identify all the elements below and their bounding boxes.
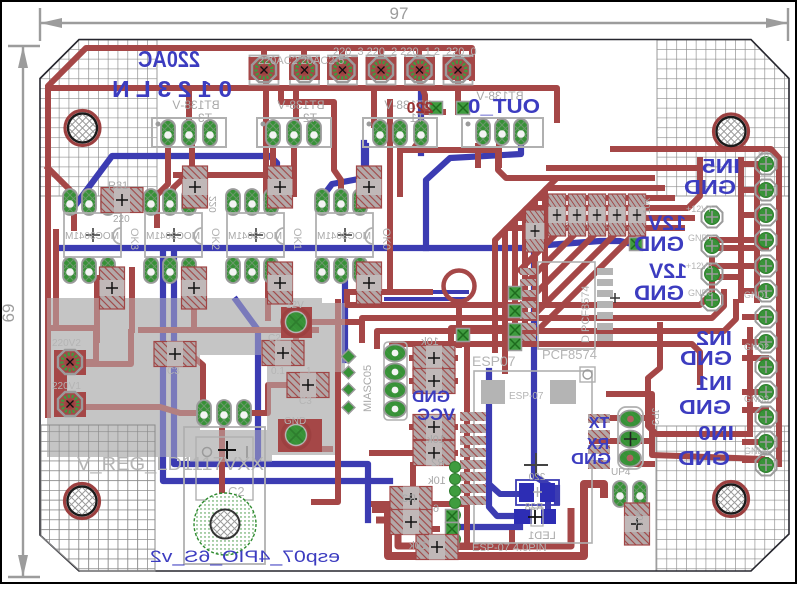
wire top bundleA6 bbox=[495, 228, 682, 350]
svg-text:220V2: 220V2 bbox=[52, 338, 81, 349]
terminal 220_0 bbox=[446, 58, 470, 82]
wire top t7 bbox=[497, 120, 503, 142]
header JP4 bbox=[611, 467, 647, 507]
wire top bank fan 4 bbox=[532, 234, 615, 317]
svg-text:0.1: 0.1 bbox=[271, 366, 285, 377]
wire bottom b2 bbox=[326, 143, 364, 203]
svg-text:12V: 12V bbox=[286, 300, 304, 311]
wire top bank fan 2 bbox=[524, 234, 575, 285]
svg-text:GND4: GND4 bbox=[744, 446, 769, 456]
wire bottom led link bbox=[489, 484, 523, 494]
optocoupler OK2 MOC3041M bbox=[144, 189, 202, 283]
svg-text:UP4: UP4 bbox=[611, 467, 631, 478]
wire bottom b9 bbox=[236, 300, 258, 464]
resistor R00 bbox=[357, 262, 382, 304]
IC PCF8574 bbox=[520, 262, 620, 362]
hatch region bottom-left overlay bbox=[41, 425, 155, 571]
wire top m2 bbox=[291, 146, 297, 194]
wire top bank fan 5 bbox=[536, 234, 634, 332]
resistor bank RN1 bbox=[548, 194, 566, 236]
terminal 220V2 red pour bbox=[54, 350, 86, 375]
wire top m3 bbox=[397, 146, 403, 194]
voltage regulator V_REG_LD1117VXX bbox=[184, 400, 265, 564]
wire top pad link2 bbox=[712, 245, 766, 251]
wire top right rail inner bbox=[738, 160, 744, 300]
wire bottom b6 bbox=[163, 252, 390, 481]
wire top bundle feed bbox=[402, 150, 557, 178]
resistor R10 bbox=[526, 210, 545, 252]
wire top right zig7 bbox=[745, 339, 766, 345]
wire top gnd rail right bbox=[314, 302, 338, 502]
svg-text:10k: 10k bbox=[409, 540, 427, 552]
resistor R6 bbox=[413, 441, 455, 466]
LED LED1 bbox=[514, 502, 556, 542]
svg-text:GND: GND bbox=[634, 282, 684, 305]
silkscreen pour base bbox=[47, 298, 345, 462]
dimension 69 extension line bottom bbox=[8, 576, 40, 578]
terminal pad red pour 5 bbox=[404, 57, 435, 80]
resistor R01 bbox=[357, 166, 382, 208]
wire top rail2 drop T2 bbox=[293, 92, 299, 125]
svg-text:IN0: IN0 bbox=[698, 423, 734, 445]
wire top m5 bbox=[94, 278, 100, 340]
wire top rail2 drop T3 bbox=[186, 92, 192, 125]
dimension 69 arrow bottom bbox=[18, 555, 28, 577]
wire top left col feeds bbox=[309, 319, 357, 325]
terminal 220AC1 bbox=[293, 58, 317, 82]
hole top-left bbox=[65, 111, 100, 146]
svg-text:OK2: OK2 bbox=[209, 228, 221, 250]
svg-text:IN5: IN5 bbox=[702, 156, 740, 178]
dimension 97 line bbox=[40, 22, 788, 24]
wire bottom b5 branch bbox=[534, 241, 632, 246]
wire top triac0 down bbox=[475, 146, 481, 165]
terminal pad red pour 2 bbox=[289, 57, 320, 80]
wire top right zig2 bbox=[741, 212, 766, 218]
wire top right zig5 bbox=[741, 288, 766, 294]
wire top esp bottom v bbox=[413, 465, 437, 529]
wire top pad link6 bbox=[745, 457, 766, 463]
wire bottom b1 bbox=[77, 156, 277, 203]
wire top right bottom L inner bbox=[609, 394, 762, 459]
wire top esp horizontal bbox=[374, 501, 467, 507]
wire top t5 bbox=[419, 80, 443, 112]
resistor R3 bbox=[390, 487, 432, 512]
wire top m1c bbox=[157, 146, 168, 225]
wire top jp3 stub1 bbox=[622, 415, 652, 421]
via ring center bbox=[444, 271, 475, 302]
wire top 220V2 to rail bbox=[82, 332, 131, 364]
dimension 69 arrow top bbox=[18, 46, 28, 68]
dimension 97 arrow right bbox=[766, 18, 788, 28]
svg-text:10k: 10k bbox=[421, 336, 439, 348]
wire top vreg c3 bbox=[244, 385, 292, 413]
svg-text:220: 220 bbox=[208, 196, 219, 213]
svg-text:GND: GND bbox=[678, 448, 730, 470]
svg-text:12V: 12V bbox=[648, 212, 686, 235]
wire top vreg c1 bbox=[190, 354, 203, 399]
svg-text:220: 220 bbox=[407, 100, 434, 117]
wire top bundleA7 bbox=[549, 165, 694, 171]
wire top pad link5 bbox=[745, 407, 766, 413]
wire top bundleB2 bbox=[362, 292, 724, 340]
resistor R10b bbox=[268, 262, 293, 304]
wire top bottom U loop inner bbox=[376, 508, 571, 546]
svg-text:VCC: VCC bbox=[417, 405, 455, 424]
wire top t2 bbox=[281, 92, 341, 198]
wire top rx stub bbox=[592, 438, 622, 444]
svg-text:C3: C3 bbox=[299, 396, 312, 407]
svg-text:10k: 10k bbox=[428, 475, 446, 487]
svg-text:GND: GND bbox=[679, 397, 731, 419]
hole bottom-right bbox=[714, 482, 749, 517]
svg-text:GND8: GND8 bbox=[688, 288, 713, 298]
wire top left rail second bbox=[53, 232, 59, 328]
svg-text:GND3: GND3 bbox=[744, 394, 769, 404]
terminal 220_2 bbox=[369, 58, 393, 82]
resistor bank RN5 bbox=[628, 194, 646, 236]
wire top 220V2 branch bbox=[48, 328, 96, 362]
svg-text:OK1: OK1 bbox=[291, 228, 303, 250]
wire top bottom U loop outer bbox=[372, 484, 604, 556]
svg-text:OK0: OK0 bbox=[380, 228, 392, 250]
pad GND ring bbox=[282, 421, 310, 449]
resistor R2 bbox=[413, 415, 455, 440]
wire bottom b4 bbox=[418, 88, 424, 153]
wire top stub pad1 bbox=[261, 48, 267, 60]
svg-text:T2: T2 bbox=[303, 111, 317, 125]
wire top t4 bbox=[387, 102, 393, 290]
wire bottom b7 bbox=[174, 252, 368, 520]
capacitor C2 electrolytic outline bbox=[194, 493, 256, 555]
svg-text:R31: R31 bbox=[108, 180, 128, 192]
hatch region top-right bbox=[657, 40, 789, 196]
terminal pad red pour 4 bbox=[366, 57, 397, 80]
wire top right zig1 bbox=[741, 187, 766, 193]
resistor R21 bbox=[183, 166, 208, 208]
terminal 220V1 bbox=[58, 392, 82, 416]
svg-text:ESP07: ESP07 bbox=[472, 353, 516, 369]
wire bottom circle pair a bbox=[386, 290, 467, 294]
hole bottom-left bbox=[65, 484, 100, 519]
module center mark bbox=[524, 453, 548, 477]
wire bottom led vert bbox=[545, 497, 551, 513]
wire top jp3 stub2 bbox=[622, 438, 652, 444]
wire top stub pad2 bbox=[301, 48, 307, 60]
svg-text:esp07_4PIO_6S_v2: esp07_4PIO_6S_v2 bbox=[150, 547, 340, 566]
svg-text:D PCF8574: D PCF8574 bbox=[580, 286, 592, 343]
terminal 220AC2 bbox=[252, 58, 276, 82]
wire bottom b10 bbox=[342, 262, 348, 360]
wire top stub pad3 bbox=[339, 48, 345, 60]
svg-text:97: 97 bbox=[390, 4, 409, 23]
wire top esp top tie bbox=[451, 328, 500, 352]
svg-text:GND: GND bbox=[284, 416, 306, 427]
dimension 69 extension line top bbox=[8, 45, 40, 47]
resistor R11 bbox=[268, 166, 293, 208]
hatch region bottom-right bbox=[656, 426, 789, 571]
dimension 97 extension line right bbox=[787, 8, 789, 41]
svg-text:GND1: GND1 bbox=[744, 290, 769, 300]
svg-text:220: 220 bbox=[528, 472, 545, 483]
terminal pad red pour 1 bbox=[249, 57, 280, 80]
optocoupler OK0 MOC3041M bbox=[315, 189, 373, 283]
svg-text:1: 1 bbox=[306, 366, 312, 377]
wire top blob horizontal bbox=[141, 327, 316, 333]
svg-text:+12V7: +12V7 bbox=[686, 204, 712, 214]
wire top bank fan 3 bbox=[528, 234, 595, 301]
triac T0 bbox=[462, 89, 543, 147]
svg-text:GND: GND bbox=[634, 233, 684, 256]
svg-text:R2: R2 bbox=[431, 457, 445, 469]
bottom 4pin pads bbox=[446, 510, 459, 523]
optocoupler OK3 MOC3041M bbox=[63, 189, 121, 283]
dimension 69 line bbox=[22, 46, 24, 577]
svg-text:R3: R3 bbox=[402, 493, 416, 505]
svg-text:JP3: JP3 bbox=[649, 408, 660, 426]
wire top bank fan 1 bbox=[520, 234, 556, 270]
hatch region top-left bbox=[40, 40, 157, 196]
svg-text:GND: GND bbox=[412, 387, 450, 406]
wire bottom b2b bbox=[363, 146, 369, 198]
svg-text:MOC3041M: MOC3041M bbox=[146, 231, 200, 242]
header JP3 bbox=[618, 407, 660, 469]
wire top pad link3 bbox=[712, 274, 741, 280]
triac T2 bbox=[257, 98, 331, 147]
wire top right zig4 bbox=[712, 263, 766, 269]
svg-text:6: 6 bbox=[433, 503, 439, 515]
svg-text:10k: 10k bbox=[427, 434, 445, 446]
svg-text:OK3: OK3 bbox=[128, 228, 140, 250]
resistor R31 bbox=[101, 188, 143, 213]
pad GND red pour bbox=[278, 419, 322, 452]
wire top m1 bbox=[173, 146, 192, 200]
wire top rail1 bbox=[48, 48, 472, 415]
wire top circle feed bbox=[456, 302, 462, 345]
wire top 12v link bbox=[296, 435, 330, 449]
svg-text:GND2: GND2 bbox=[744, 342, 769, 352]
svg-text:12V: 12V bbox=[649, 260, 687, 283]
triac T1 bbox=[363, 98, 437, 147]
ESP left via dots bbox=[450, 462, 461, 545]
svg-text:+12V8: +12V8 bbox=[686, 261, 712, 271]
terminal pad red pour 6 bbox=[443, 57, 474, 80]
svg-text:220AC2 20AC2-5: 220AC2 20AC2-5 bbox=[258, 55, 344, 67]
svg-text:10k: 10k bbox=[633, 509, 644, 526]
wire top esp left links bbox=[372, 358, 455, 453]
resistor R30 bbox=[100, 267, 125, 309]
capacitor C1 bbox=[154, 342, 196, 367]
svg-text:IN2: IN2 bbox=[696, 328, 732, 350]
wire bottom b3 bbox=[426, 134, 521, 248]
wire top stub pad5 bbox=[416, 48, 422, 60]
terminal 220_3 bbox=[331, 58, 355, 82]
terminal 220V1 red pour bbox=[54, 392, 86, 417]
terminal pad red pour 3 bbox=[327, 57, 358, 80]
wire top right zig3 bbox=[712, 237, 766, 243]
svg-text:220_3 220_2 220_1 2: 220_3 220_2 220_1 2 bbox=[333, 46, 440, 58]
wire top right bottom v2 bbox=[747, 330, 753, 430]
resistor bank RN3 bbox=[588, 194, 606, 236]
svg-text:BT138-V: BT138-V bbox=[277, 98, 324, 112]
wire top bundleA5 bbox=[545, 178, 652, 305]
wire top m4 bbox=[496, 146, 502, 165]
wire top t1 bbox=[263, 80, 269, 198]
capacitor C2 bbox=[262, 341, 304, 366]
wire top jp3 stub3 bbox=[629, 461, 652, 467]
svg-text:GND7: GND7 bbox=[688, 233, 713, 243]
resistor R4 bbox=[413, 346, 455, 371]
wire bottom led stub bbox=[554, 488, 560, 502]
via square top2 bbox=[457, 102, 470, 115]
wire top pad link4 bbox=[745, 355, 766, 361]
wire top right zig8 bbox=[745, 389, 766, 395]
silkscreen blob (tPlace pour) bbox=[47, 298, 345, 462]
resistor bank RN2 bbox=[568, 194, 586, 236]
resistor bank RN4 bbox=[608, 194, 626, 236]
wire top m7 bbox=[265, 278, 271, 318]
wire bottom b12 bbox=[460, 524, 520, 530]
wire top circle left feed bbox=[347, 289, 430, 295]
svg-text:ESP-07: ESP-07 bbox=[509, 391, 544, 402]
svg-text:R28: R28 bbox=[524, 502, 543, 513]
svg-text:MIASC05: MIASC05 bbox=[362, 365, 374, 412]
wire top t6 bbox=[455, 80, 461, 112]
wire top m6 bbox=[191, 278, 197, 330]
svg-text:T3: T3 bbox=[198, 111, 212, 125]
wire top 220V bridge bbox=[54, 350, 67, 417]
svg-text:ESP-07 4.0PIN: ESP-07 4.0PIN bbox=[472, 542, 547, 554]
header P5 right column bbox=[756, 154, 777, 476]
wire top esp vertical bbox=[464, 345, 470, 540]
svg-text:LED1: LED1 bbox=[528, 530, 556, 542]
svg-text:C2: C2 bbox=[268, 333, 281, 344]
optocoupler OK1 MOC3041M bbox=[226, 189, 284, 283]
svg-text:220: 220 bbox=[113, 214, 130, 225]
svg-text:MOC3041M: MOC3041M bbox=[65, 231, 119, 242]
wire top bundleB1 bbox=[347, 260, 712, 305]
wire top blob v1 bbox=[129, 270, 135, 330]
wire top right rail mid bbox=[754, 170, 760, 300]
resistor R27 220 bbox=[516, 472, 559, 505]
svg-text:10k: 10k bbox=[642, 197, 653, 214]
wire top t1 feed bbox=[414, 138, 421, 148]
wire top vreg down bbox=[219, 430, 225, 505]
header JP5 bbox=[341, 342, 407, 420]
terminal 220_1 bbox=[408, 58, 432, 82]
wire top bundleA1 bbox=[505, 218, 692, 371]
hatch region bottom-left bbox=[41, 425, 155, 571]
capacitor C3 bbox=[287, 373, 329, 398]
wire top 12V stub bbox=[293, 330, 299, 348]
resistor R7 bbox=[390, 510, 432, 535]
svg-text:P5: P5 bbox=[758, 150, 769, 160]
ESP left pin pads bbox=[460, 412, 486, 505]
wire top right bottom L outer bbox=[648, 325, 750, 434]
wire top m1b bbox=[48, 168, 74, 228]
svg-text:MOC3041M: MOC3041M bbox=[317, 231, 371, 242]
wire top bundleB4 bbox=[392, 344, 700, 382]
resistor R20 bbox=[182, 267, 207, 309]
pad +12V red pour bbox=[281, 307, 312, 338]
wire bottom b8 bbox=[489, 371, 517, 516]
svg-text:OUT_0: OUT_0 bbox=[468, 96, 540, 118]
svg-text:69: 69 bbox=[0, 304, 18, 323]
svg-text:V_REG_LD1117VXX: V_REG_LD1117VXX bbox=[77, 454, 264, 475]
via squares near PCF bbox=[509, 287, 522, 300]
wire top pad link1 bbox=[741, 161, 766, 167]
dimension 97 extension line left bbox=[39, 8, 41, 41]
resistor R8 bbox=[416, 535, 458, 560]
wire top bundleB3 bbox=[377, 302, 736, 346]
hole top-right bbox=[714, 114, 749, 149]
wire top stub pad6 bbox=[455, 48, 461, 60]
module ESP07 bbox=[472, 353, 595, 554]
resistor R9 10k bbox=[625, 503, 650, 545]
svg-text:220AC: 220AC bbox=[138, 46, 200, 72]
wire top t3 bbox=[371, 92, 377, 125]
svg-text:220V1: 220V1 bbox=[52, 381, 81, 392]
wire top m1d bbox=[176, 148, 273, 175]
svg-text:MOC3041M: MOC3041M bbox=[228, 231, 282, 242]
wire top esp r8 link bbox=[458, 533, 512, 547]
svg-text:GND: GND bbox=[571, 451, 611, 468]
wire top rail2 bbox=[48, 88, 557, 120]
pad +12V ring bbox=[282, 308, 310, 336]
svg-text:TX: TX bbox=[588, 415, 609, 432]
wire top right zig6 bbox=[745, 314, 766, 320]
svg-text:GND: GND bbox=[684, 177, 736, 199]
svg-text:GND: GND bbox=[680, 348, 732, 370]
terminal silk squares bbox=[250, 56, 279, 85]
wire top bundleA4 bbox=[535, 188, 662, 318]
terminal 220V2 bbox=[58, 350, 82, 374]
wire bottom circle pair b bbox=[386, 297, 467, 301]
dimension 97 arrow left bbox=[40, 18, 62, 28]
triac T3 bbox=[152, 98, 226, 147]
wire top 220V1 branch bbox=[82, 407, 200, 413]
via square top bbox=[430, 102, 443, 115]
ESP right pin pads bbox=[588, 414, 610, 469]
wire top right rail P5 bbox=[613, 149, 779, 464]
wire top m8 bbox=[371, 278, 377, 300]
wire bottom b5 bbox=[58, 248, 547, 484]
resistor R5 bbox=[413, 369, 455, 394]
svg-text:PCF8574: PCF8574 bbox=[542, 347, 597, 362]
svg-text:C3: C3 bbox=[167, 366, 180, 377]
wire top right zig9 bbox=[745, 439, 766, 445]
wire top bundleA2 bbox=[515, 160, 700, 344]
svg-text:0 1 2 3 L N: 0 1 2 3 L N bbox=[112, 76, 232, 102]
svg-text:220_0: 220_0 bbox=[446, 46, 477, 58]
wire top bundleA3 bbox=[525, 198, 672, 331]
wire top tx stub bbox=[592, 415, 622, 421]
svg-text:IN1: IN1 bbox=[696, 373, 732, 395]
wire top stub pad4 bbox=[378, 48, 384, 60]
header P6 inner column bbox=[702, 207, 723, 311]
